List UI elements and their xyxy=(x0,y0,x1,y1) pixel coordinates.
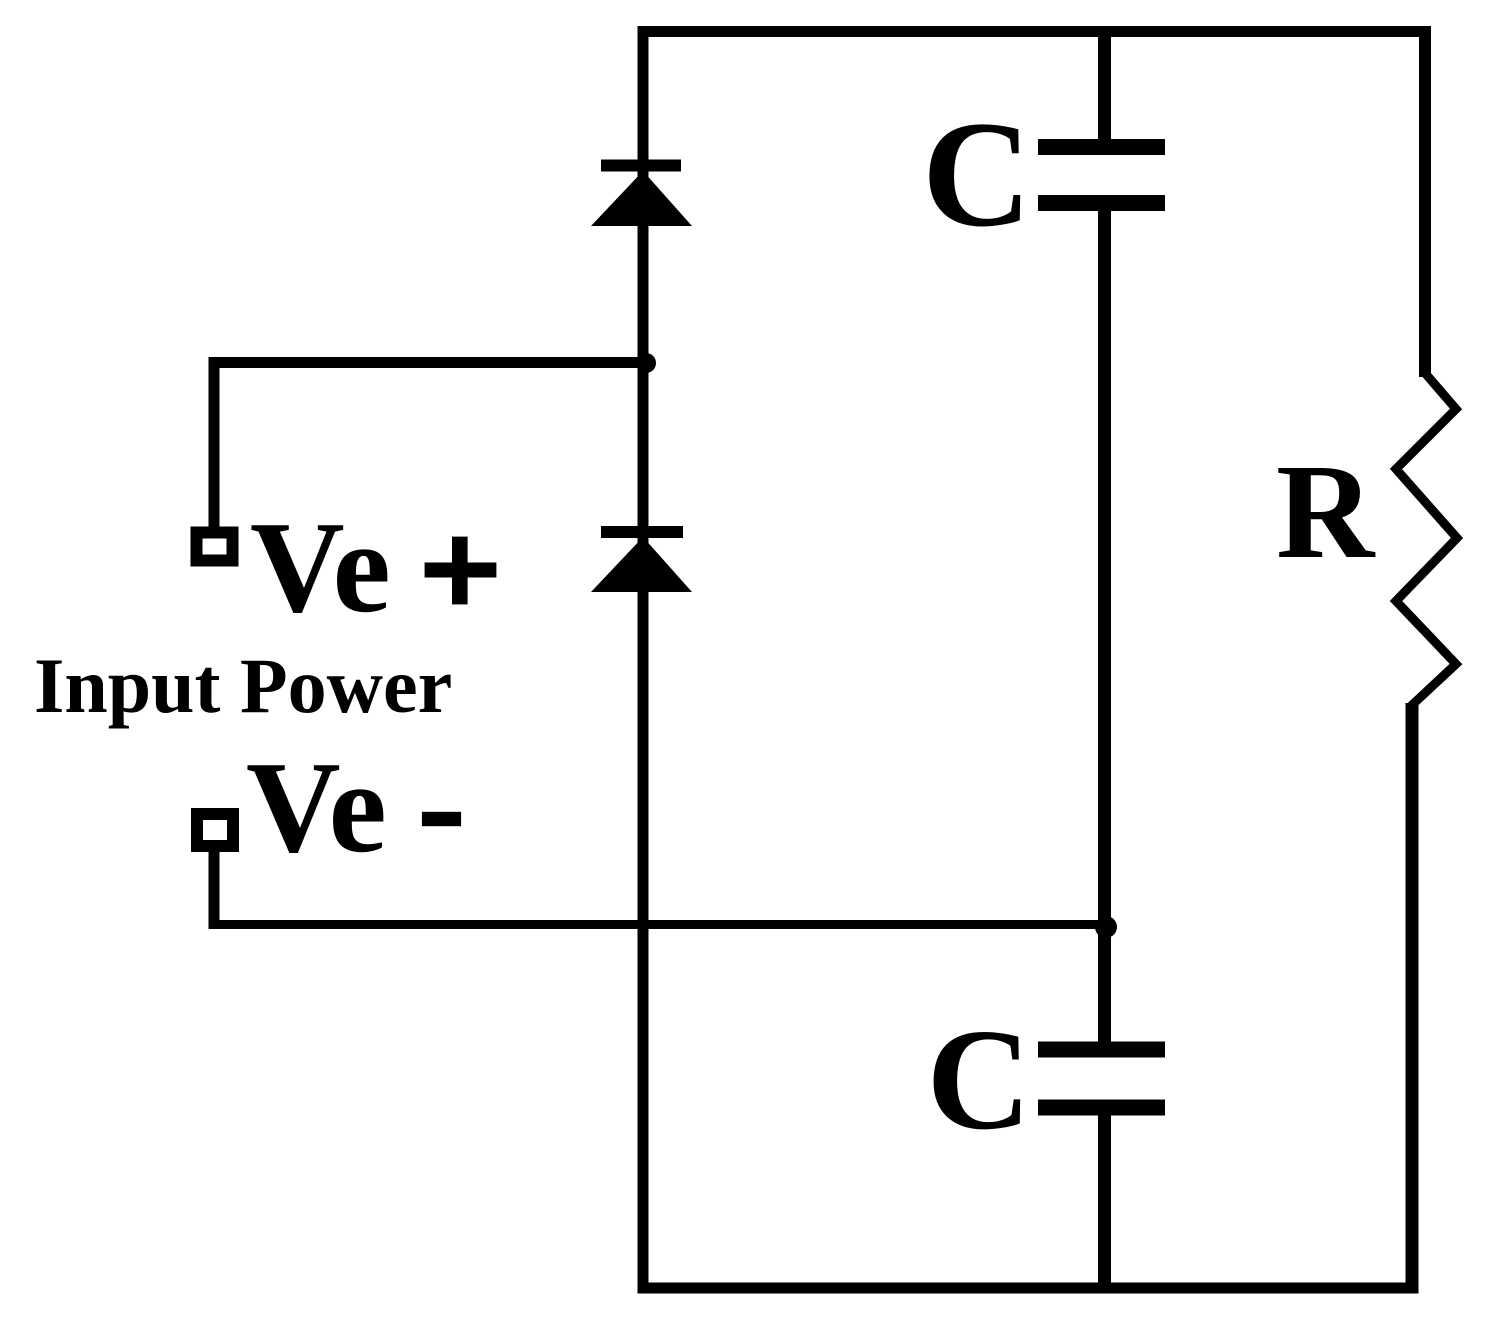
wire right vertical lower (resistor to bottom) xyxy=(1406,703,1419,1293)
capacitor C bottom xyxy=(1038,1050,1165,1108)
svg-text:C: C xyxy=(922,90,1032,258)
diode D1 (top) xyxy=(591,166,692,227)
terminal Ve- square xyxy=(197,814,233,846)
wire capacitor branch vertical middle xyxy=(1098,210,1111,1043)
svg-text:C: C xyxy=(927,1000,1032,1160)
svg-text:Ve: Ve xyxy=(246,735,387,880)
node junction dot (cap branch / Ve- wire) xyxy=(1095,916,1117,938)
wire top horizontal xyxy=(638,26,1431,37)
wire bottom horizontal xyxy=(638,1283,1419,1294)
wire right vertical upper (to resistor) xyxy=(1419,26,1431,377)
plus sign xyxy=(425,537,497,605)
svg-text:Ve: Ve xyxy=(250,495,391,640)
diode D2 (lower) xyxy=(591,532,692,592)
capacitor C top xyxy=(1038,147,1165,203)
wire Ve- horizontal (thin) xyxy=(209,920,1106,929)
svg-text:Input Power: Input Power xyxy=(34,642,452,729)
terminal Ve+ square xyxy=(197,533,233,561)
svg-text:R: R xyxy=(1276,437,1376,587)
node junction dot (diode branch / Ve+ wire) xyxy=(636,353,656,373)
wire capacitor branch vertical bottom xyxy=(1098,1114,1111,1293)
wire Ve+ vertical xyxy=(209,357,220,530)
wire left vertical (diode branch) xyxy=(638,26,649,1293)
resistor R xyxy=(1396,373,1457,706)
wire Ve- vertical xyxy=(209,850,220,929)
wire capacitor branch vertical top xyxy=(1098,26,1111,140)
minus sign xyxy=(422,812,461,826)
wire Ve+ horizontal xyxy=(209,357,649,368)
